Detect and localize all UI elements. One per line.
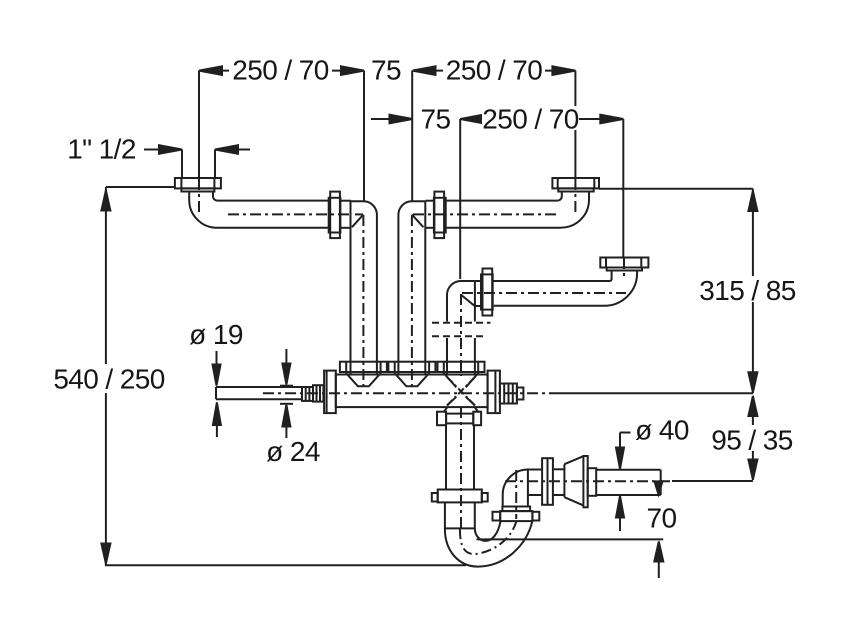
- dim ø19 arrows: [213, 351, 221, 437]
- downpipe 3 elbow: [447, 281, 475, 322]
- funnel 3: [438, 362, 485, 388]
- svg-text:75: 75: [371, 55, 401, 86]
- svg-text:250 / 70: 250 / 70: [446, 55, 542, 86]
- dim 70: [477, 481, 664, 578]
- U-bend centerline: [460, 522, 516, 554]
- right tailpiece flange: [552, 178, 599, 192]
- svg-text:95 / 35: 95 / 35: [711, 425, 792, 456]
- dim ø40: [616, 433, 631, 532]
- svg-text:ø 19: ø 19: [189, 319, 243, 350]
- left tailpiece elbow: [189, 192, 329, 228]
- union U1: [329, 192, 351, 239]
- top pipe 2: [446, 201, 562, 228]
- text backing rects: [57, 57, 797, 451]
- svg-text:75: 75: [421, 104, 451, 135]
- U-bend: [445, 521, 532, 566]
- dim ø24 arrows: [280, 349, 293, 438]
- downpipe 3 break dashes: [432, 323, 491, 337]
- outlet pipe: [588, 468, 661, 496]
- bottom tee: [437, 407, 481, 425]
- top pipe 2 centerline: [413, 213, 557, 215]
- right tailpiece elbow: [557, 191, 589, 227]
- cross fitting marks: [447, 397, 475, 406]
- cross centerline diagonals: [447, 377, 475, 406]
- pipe 3 centerline: [462, 292, 626, 294]
- svg-text:540 / 250: 540 / 250: [53, 364, 164, 395]
- third inlet flange: [600, 258, 648, 281]
- downpipe 2 centerline: [411, 215, 413, 387]
- funnel 2: [388, 362, 435, 387]
- third inlet elbow: [493, 271, 637, 306]
- dim 1"1/2: [144, 145, 250, 177]
- downpipe 3 centerline: [460, 294, 462, 376]
- downpipe 2 elbow: [398, 201, 425, 374]
- cone fitting: [564, 456, 587, 507]
- svg-text:315 / 85: 315 / 85: [699, 275, 795, 306]
- svg-text:70: 70: [647, 503, 677, 534]
- manifold centerline: [263, 392, 551, 394]
- trap vertical pipe: [446, 425, 474, 489]
- top pipe 1 centerline: [228, 213, 363, 215]
- svg-text:ø 40: ø 40: [635, 415, 689, 446]
- outlet elbow: [503, 470, 542, 507]
- tailpiece centerline right: [574, 179, 576, 215]
- thin pipe ø19: [216, 387, 302, 399]
- svg-text:250 / 70: 250 / 70: [482, 104, 578, 135]
- dim 315/85: [551, 189, 757, 393]
- outlet barb right: [500, 384, 524, 404]
- dim 250/70 row2: [460, 115, 623, 279]
- funnel 1: [340, 362, 387, 387]
- dimension labels: [53, 55, 795, 534]
- dim 250/70 row1 right: [412, 66, 575, 201]
- trap nut: [432, 490, 488, 503]
- trap inlet tube: [445, 502, 475, 529]
- svg-text:ø 24: ø 24: [266, 436, 320, 467]
- outlet nut: [542, 458, 564, 505]
- downpipe 1 elbow: [351, 201, 377, 374]
- union U3: [475, 269, 493, 316]
- manifold left flange: [324, 371, 336, 414]
- svg-text:250 / 70: 250 / 70: [232, 55, 328, 86]
- outlet elbow centerlines: [505, 470, 671, 519]
- union U2: [425, 192, 445, 239]
- tailpiece centerline left: [198, 179, 200, 215]
- trap outlet nut: [493, 507, 540, 522]
- downpipe 3 lower walls: [447, 338, 475, 375]
- left tailpiece flange: [175, 178, 221, 192]
- dim 95/35: [672, 396, 757, 481]
- dim 540/250: [101, 187, 466, 565]
- dim 250/70 row1 left: [199, 66, 364, 201]
- svg-text:1" 1/2: 1" 1/2: [67, 134, 136, 165]
- manifold body: [336, 375, 488, 408]
- dim 75 row2 arrow: [371, 115, 413, 124]
- inlet barb left: [302, 385, 323, 401]
- trap vertical centerline: [460, 407, 462, 528]
- downpipe 1 centerline: [362, 215, 364, 387]
- manifold right flange: [488, 371, 500, 414]
